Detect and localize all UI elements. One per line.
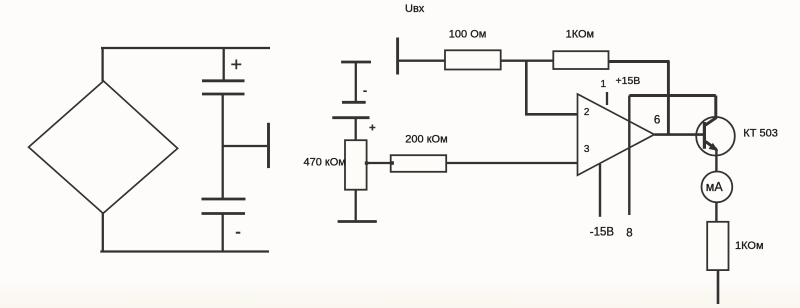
svg-text:мА: мА xyxy=(706,180,724,194)
svg-text:200 кОм: 200 кОм xyxy=(405,133,447,145)
svg-text:6: 6 xyxy=(654,114,660,126)
svg-text:100 Ом: 100 Ом xyxy=(449,28,487,40)
svg-text:3: 3 xyxy=(584,144,590,155)
svg-text:КТ 503: КТ 503 xyxy=(743,128,778,140)
svg-text:1: 1 xyxy=(601,79,607,90)
svg-text:8: 8 xyxy=(626,228,632,240)
svg-text:-15В: -15В xyxy=(590,226,615,238)
svg-text:Uвх: Uвх xyxy=(405,3,425,15)
svg-text:2: 2 xyxy=(584,107,590,118)
svg-text:+15В: +15В xyxy=(616,75,641,87)
svg-text:1КОм: 1КОм xyxy=(735,240,764,252)
svg-text:470 кОм: 470 кОм xyxy=(304,156,346,168)
svg-text:1КОм: 1КОм xyxy=(566,29,595,41)
